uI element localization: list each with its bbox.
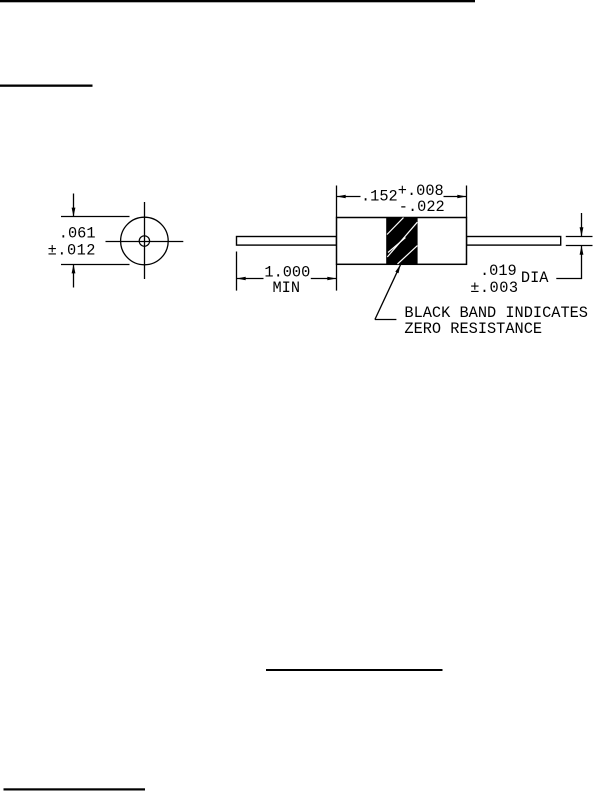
dimension .152 right arrow segment <box>444 195 467 199</box>
svg-text:.019: .019 <box>480 262 517 280</box>
dimension .061 lower arrow <box>72 264 76 287</box>
end view horizontal centerline <box>106 241 184 243</box>
dimension .019 lower arrow <box>580 246 584 279</box>
dimension .061 upper arrow <box>72 194 76 217</box>
top rule <box>0 0 475 2</box>
component body <box>337 218 467 265</box>
svg-text:.061: .061 <box>59 224 96 242</box>
dimension .019 bottom extension line <box>566 245 593 247</box>
end view lead circle <box>139 236 149 246</box>
black band <box>386 218 417 265</box>
right lead <box>467 237 561 246</box>
left lead <box>237 237 337 246</box>
end view vertical centerline <box>144 202 146 279</box>
center rule <box>266 669 443 671</box>
svg-text:MIN: MIN <box>273 279 301 297</box>
dimension .019 upper arrow <box>580 213 584 237</box>
svg-text:±.012: ±.012 <box>48 242 96 260</box>
bottom-left rule <box>4 788 146 790</box>
svg-text:.152: .152 <box>361 188 398 206</box>
black band callout leader <box>375 264 401 319</box>
svg-text:-.022: -.022 <box>399 198 445 216</box>
dimension 1.000 right extension line <box>336 265 338 291</box>
svg-text:ZERO RESISTANCE: ZERO RESISTANCE <box>404 320 542 338</box>
dimension .019 top extension line <box>566 236 593 238</box>
dimension 1.000 left extension line <box>236 252 238 291</box>
left heading underline <box>0 85 93 87</box>
dimension .061 bottom extension line <box>61 264 130 266</box>
svg-text:DIA: DIA <box>521 269 549 287</box>
dimension .019 leader to DIA <box>556 278 582 280</box>
dimension 1.000 right arrow segment <box>311 277 337 281</box>
svg-text:±.003: ±.003 <box>470 279 518 297</box>
dimension .152 right extension line <box>466 186 468 218</box>
dimension .152 left arrow segment <box>337 195 361 199</box>
dimension 1.000 left arrow segment <box>237 277 264 281</box>
end view outer circle (component body) <box>121 217 169 265</box>
black band hatch lines <box>387 218 417 264</box>
dimension .061 top extension line <box>61 216 130 218</box>
dimension .152 left extension line <box>336 186 338 218</box>
